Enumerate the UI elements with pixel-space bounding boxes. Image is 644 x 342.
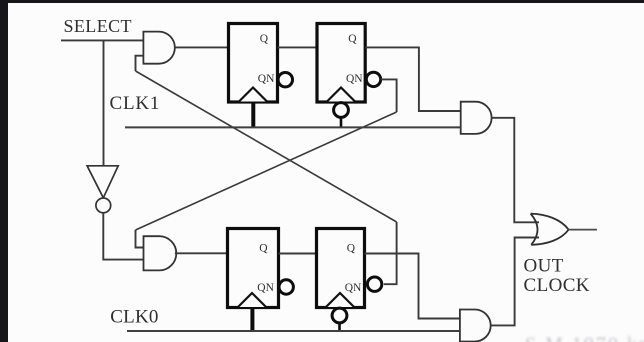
FF1 clock edge triangle (239, 88, 267, 102)
wire: FF4 Q right, down, into G4 top input (365, 254, 460, 319)
wire: FF3 Q to FF4 D (279, 253, 317, 255)
svg-text:CLOCK: CLOCK (524, 275, 590, 296)
wire: FF1 clock stem to CLK1 line (251, 102, 255, 127)
svg-text:QN: QN (257, 282, 274, 294)
svg-text:QN: QN (258, 73, 275, 85)
AND gate G2 (bottom-left) (144, 236, 177, 270)
flip-flop FF3 (bottom-left) body (228, 229, 279, 308)
FF4 QN output bubble (367, 277, 381, 291)
FF4 clock edge triangle (326, 293, 354, 307)
flip-flop FF2 (top-right) body (317, 24, 365, 103)
AND gate G4 (bottom-right) (460, 310, 491, 342)
flip-flop FF4 (bottom-right) body (317, 229, 365, 308)
svg-text:S.M.1970 km?: S.M.1970 km? (525, 334, 644, 342)
svg-text:SELECT: SELECT (64, 16, 132, 36)
svg-text:Q: Q (259, 243, 268, 255)
inverter U1 triangle (87, 166, 118, 198)
OR gate G5 (output) (531, 214, 569, 245)
wire: FF2 QN right then down (381, 79, 397, 112)
wire: FF3 clock stem to CLK0 line (250, 308, 254, 332)
wire: diagonal B feedback from FF2 QN down to G2 (136, 112, 397, 230)
wire: vertical from diagonal A down to FF4 QN bubble (384, 222, 397, 284)
wire: inverter output down and right to AND G2 lower input (103, 213, 143, 260)
wire: FF2 clock bubble stem to CLK1 line (340, 117, 343, 127)
inverter U1 output bubble (96, 198, 111, 213)
FF2 clock edge triangle (327, 88, 355, 102)
flip-flop FF1 (top-left) body (229, 24, 278, 103)
wire: CLK0 line to G4 bottom input (127, 330, 460, 332)
FF1 QN output bubble (278, 73, 292, 87)
svg-text:Q: Q (260, 33, 269, 45)
wire: G1 output to FF1 D input (175, 46, 229, 48)
wire: diagonal A feedback from FF4 QN up to G1 (136, 71, 397, 222)
svg-text:CLK0: CLK0 (110, 307, 158, 328)
svg-text:CLK1: CLK1 (110, 93, 161, 114)
svg-text:QN: QN (346, 73, 363, 85)
wire: SELECT net horizontal into AND G1 top input (61, 39, 143, 41)
svg-text:Q: Q (348, 33, 357, 45)
wire: FF1 Q to FF2 D (278, 46, 318, 48)
wire: G3 output right then down to OR G5 top input (491, 118, 539, 223)
svg-text:QN: QN (345, 282, 362, 294)
wire: SELECT vertical drop to inverter (103, 40, 105, 165)
FF4 inverted-clock bubble (332, 308, 347, 323)
wire: G1 lower-input step from feedback diagonal (136, 56, 144, 71)
wire: CLK1 line to G3 bottom input (125, 126, 461, 128)
wire: FF2 Q right, down, into G3 top input (365, 47, 461, 111)
wire: G2 upper-input step from diagonal B (136, 230, 144, 248)
FF2 QN output bubble (366, 72, 380, 86)
FF3 QN output bubble (279, 280, 293, 294)
wire: G2 output to FF3 D input (175, 252, 228, 254)
AND gate G1 (top-left) (143, 32, 174, 64)
svg-text:OUT: OUT (524, 255, 564, 276)
FF3 clock edge triangle (238, 293, 266, 307)
svg-text:Q: Q (347, 243, 356, 255)
wire: G4 output right then up to OR G5 bottom input (491, 238, 539, 326)
wire: G5 output (568, 229, 597, 231)
FF2 inverted-clock bubble (334, 103, 349, 118)
wire: FF4 clock bubble stem to CLK0 line (338, 323, 341, 331)
AND gate G3 (right-middle) (461, 102, 492, 134)
